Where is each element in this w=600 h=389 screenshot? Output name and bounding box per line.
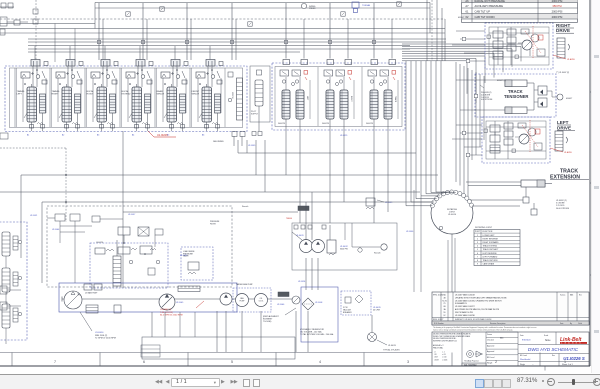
- svg-text:CRANES: CRANES: [561, 342, 583, 345]
- svg-text:6: 6: [477, 253, 478, 255]
- node: junction squares on top bus: [160, 7, 164, 11]
- wire: right column long verticals: [455, 62, 457, 182]
- svg-text:TM060: TM060: [286, 218, 292, 220]
- svg-text:U1.I0246: U1.I0246: [406, 231, 413, 233]
- svg-text:.XXXX: .XXXX: [434, 359, 440, 361]
- svg-text:HYDRAULIC RESERVOIR: HYDRAULIC RESERVOIR: [300, 328, 324, 331]
- svg-text:WINCH: WINCH: [157, 94, 165, 96]
- check valve blocks: [538, 86, 547, 95]
- svg-text:CAB TILT UP: CAB TILT UP: [475, 10, 491, 14]
- wire: vertical feed drops into valve bank: [98, 3, 100, 60]
- right drive gearbox: [557, 38, 565, 58]
- svg-text:(**) U1.I0037 (2): (**) U1.I0037 (2): [556, 72, 569, 74]
- svg-text:72 GPM @ 2200 RPM: 72 GPM @ 2200 RPM: [95, 338, 116, 340]
- sheet border right: [589, 0, 591, 366]
- left drive gearbox: [555, 131, 563, 151]
- nav: last page button: [231, 379, 238, 385]
- svg-text:ROTATING: ROTATING: [447, 208, 457, 211]
- svg-text:2: 2: [495, 360, 497, 364]
- svg-text:7: 7: [477, 256, 478, 258]
- sheet border bottom zone band: [0, 352, 432, 354]
- svg-text:LEFT: LEFT: [17, 94, 23, 96]
- nav: prev page button: [166, 379, 169, 385]
- wire: pump drive shaft: [62, 298, 296, 300]
- svg-text:U1.I0245 WAS U1.I0227: U1.I0245 WAS U1.I0227: [455, 305, 475, 308]
- svg-text:ROTATING JOINT: ROTATING JOINT: [475, 226, 493, 229]
- wire: top frame verticals: [94, 3, 96, 29]
- svg-text:U1.I0045: U1.I0045: [176, 302, 183, 304]
- cylinder C2 tensioner lower: [505, 107, 527, 114]
- svg-text:U1.I0021: U1.I0021: [30, 215, 37, 217]
- valve bank 1 enclosure (main control valve): [5, 60, 247, 137]
- main pump group box: [59, 283, 237, 312]
- pilot valves upper left of pump enclosure: [55, 214, 65, 221]
- svg-text:Drawn: Drawn: [487, 333, 492, 336]
- svg-text:.XX: .XX: [434, 354, 438, 356]
- svg-text:DRIVE: DRIVE: [557, 125, 571, 130]
- pump P4 fan pump: [236, 294, 249, 307]
- svg-text:UPDATED STROT RIGHT AND LEFT S: UPDATED STROT RIGHT AND LEFT SHEAVE FAN …: [455, 296, 507, 299]
- valve section aux 2 (cut off): [2, 268, 10, 292]
- svg-text:± .1: ± .1: [442, 352, 445, 354]
- svg-text:TRACK RETRACT: TRACK RETRACT: [483, 248, 500, 251]
- svg-text:LEFT REVERSE: LEFT REVERSE: [483, 253, 498, 255]
- left drive motor circuit: [452, 117, 550, 163]
- svg-text:OIL VOLUME - 100 GAL: OIL VOLUME - 100 GAL: [300, 331, 323, 334]
- svg-text:.XXX: .XXX: [434, 357, 439, 359]
- svg-text:B/D Level: B/D Level: [487, 357, 495, 359]
- svg-text:TOTAL SYSTEM VOLUME - 200 GAL: TOTAL SYSTEM VOLUME - 200 GAL: [300, 333, 335, 336]
- svg-text:M-540T: M-540T: [458, 17, 465, 19]
- wire: return pipes into tank: [216, 311, 218, 352]
- svg-text:U1.I0018: U1.I0018: [180, 255, 187, 257]
- small junction box lower left of tank: [141, 345, 160, 357]
- svg-text:8/5/2020: 8/5/2020: [522, 340, 531, 342]
- swing inlet blocks: [294, 225, 298, 229]
- wire: joint outputs right: [470, 199, 523, 201]
- svg-text:U1.I0229: U1.I0229: [340, 135, 347, 137]
- svg-text:T2461A4: T2461A4: [362, 4, 371, 7]
- svg-text:Revision Description: Revision Description: [490, 322, 505, 325]
- svg-text:LEFT FORWARD: LEFT FORWARD: [483, 255, 498, 258]
- svg-text:W84 DVE (2): W84 DVE (2): [95, 335, 108, 337]
- svg-text:B/D Level: B/D Level: [520, 355, 528, 357]
- tandem fan/cooler pumps dashed box: [233, 288, 271, 312]
- svg-text:U1.I0017: U1.I0017: [128, 214, 135, 216]
- svg-text:U1.A21B: U1.A21B: [564, 151, 572, 154]
- svg-text:Chkd: Chkd: [578, 323, 582, 325]
- svg-text:U1.I0234: U1.I0234: [298, 281, 305, 283]
- svg-text:A1: A1: [27, 134, 29, 137]
- breather B1: [368, 333, 377, 342]
- svg-text:40 CFM: 40 CFM: [373, 310, 380, 312]
- svg-text:Rev: Rev: [579, 295, 582, 297]
- svg-text:RIGHT: RIGHT: [52, 94, 59, 96]
- svg-text:(REPLACEMENT: (REPLACEMENT: [263, 315, 279, 318]
- svg-text:U1.I0014: U1.I0014: [448, 214, 457, 216]
- svg-text:A6: A6: [465, 0, 469, 3]
- zoom slider: [558, 382, 595, 383]
- svg-text:A2: A2: [62, 134, 64, 137]
- svg-text:HOIST: HOIST: [87, 94, 94, 96]
- svg-text:None: None: [545, 340, 551, 342]
- pilot supply valve between banks: [250, 66, 270, 131]
- wire: rotating joint drain line: [451, 234, 453, 292]
- valve bank 1 end cover: [225, 68, 243, 127]
- svg-text:4.00 STROKE: 4.00 STROKE: [481, 99, 493, 101]
- wire: bank 2 section drops to lower circuits: [285, 130, 287, 175]
- svg-text:Wes Arnold: Wes Arnold: [520, 358, 530, 361]
- pump P6 swing pump: [300, 240, 313, 253]
- wire: swing lines: [305, 202, 307, 240]
- wire: top dashed pilot bus: [0, 18, 445, 20]
- pump control enclosure (dashed): [47, 206, 232, 287]
- svg-text:M-069T: M-069T: [566, 98, 573, 100]
- valve section BOOM HOIST: [85, 60, 118, 137]
- svg-text:5: 5: [231, 360, 233, 364]
- svg-text:TRACK EXTEND: TRACK EXTEND: [483, 245, 498, 248]
- svg-text:TYPICAL 3 PLACES: TYPICAL 3 PLACES: [383, 349, 400, 352]
- svg-text:BREAKER: BREAKER: [343, 311, 352, 314]
- label RIGHT DRIVE: [556, 23, 574, 33]
- svg-text:A4: A4: [132, 134, 134, 137]
- svg-text:TRACK RETURN: TRACK RETURN: [483, 259, 498, 262]
- svg-text:Approved: Approved: [487, 344, 494, 347]
- svg-text:SHRLNE TO U1.I0016, U1.I0229 W: SHRLNE TO U1.I0016, U1.I0229 WAS U1.I023…: [455, 318, 491, 321]
- svg-text:RIGHT FORWARD: RIGHT FORWARD: [483, 241, 500, 244]
- cylinder C3 track extension: [466, 180, 570, 215]
- svg-text:U1.I0245: U1.I0245: [248, 145, 255, 147]
- svg-text:Scale: Scale: [544, 335, 548, 337]
- svg-text:SCHEMATICS: SCHEMATICS: [455, 302, 467, 305]
- svg-text:U1.A21B: U1.A21B: [567, 58, 575, 61]
- zoom in button: [593, 378, 600, 386]
- valve section REAR WINCH: [155, 60, 188, 137]
- wire: verticals joint to lower right: [413, 190, 415, 292]
- svg-text:1500 PSI: 1500 PSI: [96, 242, 103, 244]
- pump P7 swing pump 2: [312, 240, 325, 253]
- valve section TRAVEL LEFT: [15, 60, 48, 137]
- component: swing pressure sender at top: [301, 3, 306, 8]
- svg-text:A6: A6: [202, 134, 204, 137]
- rotating joint ports: [430, 204, 434, 208]
- svg-text:7: 7: [54, 360, 56, 364]
- load sense pressure valve box: [181, 247, 213, 280]
- valve section aux 1 (cut off): [2, 232, 10, 256]
- pump P2: [159, 294, 175, 310]
- wire: top right corner verticals: [426, 0, 428, 61]
- svg-text:LEFT: LEFT: [306, 96, 308, 101]
- viewer bottom toolbar: [0, 374, 600, 389]
- svg-text:U1.I0047 (*): U1.I0047 (*): [160, 309, 172, 311]
- zoom out button: [542, 380, 544, 382]
- valve section RIGHT DRIVE: [318, 60, 354, 131]
- tag TMD-43: [278, 292, 289, 297]
- svg-text:TRAVEL: TRAVEL: [52, 90, 61, 93]
- control valves above pump: [118, 227, 130, 235]
- svg-text:Date: Date: [520, 334, 524, 337]
- svg-text:The drawing is the property of: The drawing is the property of Link-Belt…: [433, 326, 537, 329]
- svg-text:1: 1: [564, 360, 566, 364]
- svg-text:WINCH: WINCH: [192, 94, 200, 96]
- svg-text:UNLESS OTHERWISE SPECIFIED DIM: UNLESS OTHERWISE SPECIFIED DIMENSIONS AR…: [433, 333, 470, 336]
- svg-text:RIGHT: RIGHT: [350, 96, 352, 102]
- svg-text:U1 MAIN PUMP: U1 MAIN PUMP: [85, 292, 98, 295]
- valve section BOOM EXTEND: [120, 60, 153, 137]
- gauge circle: [557, 94, 563, 100]
- svg-text:U1.I0046: U1.I0046: [277, 304, 284, 306]
- red annotation U1.I0226 main valve: [148, 131, 176, 137]
- revision table: [432, 292, 589, 325]
- svg-text:Third Angle Projection: Third Angle Projection: [464, 360, 479, 363]
- svg-text:DELIVERED: DELIVERED: [213, 141, 224, 143]
- wire: vertical bundle down to rotating joint: [405, 61, 407, 190]
- valve section FRONT WINCH: [190, 60, 223, 137]
- svg-text:R.B. Number: R.B. Number: [434, 322, 444, 325]
- svg-text:COOL: COOL: [259, 301, 264, 303]
- svg-text:3000 PSI: 3000 PSI: [366, 123, 373, 125]
- reservoir internal box: [301, 287, 338, 342]
- viewer scrollbar: [591, 0, 600, 373]
- wire: top horizontal return lines: [95, 2, 430, 4]
- valve section TRAVEL RIGHT: [50, 60, 83, 137]
- svg-text:CASE DRAIN: CASE DRAIN: [483, 263, 495, 266]
- left edge port stubs: [0, 286, 7, 294]
- wire: drain lines below joint: [447, 240, 449, 292]
- svg-text:PORT: PORT: [475, 231, 481, 233]
- title block: [432, 332, 589, 366]
- svg-text:A7: A7: [465, 4, 469, 8]
- svg-text:FILTER: FILTER: [210, 223, 216, 225]
- wire: top-left small lines: [0, 6, 14, 8]
- svg-text:Various: Various: [560, 295, 565, 297]
- wire: swing return lines: [305, 258, 307, 290]
- pump regulator sub-box: [90, 243, 168, 288]
- cylinder C1 tensioner upper: [505, 80, 527, 87]
- svg-text:U1.I0226: U1.I0226: [157, 133, 168, 137]
- svg-text:1: 1: [477, 235, 478, 237]
- svg-text:U1.I0008: U1.I0008: [315, 302, 322, 304]
- third angle projection symbol: [467, 351, 474, 358]
- svg-text:3000 PSI: 3000 PSI: [322, 123, 329, 125]
- label LEFT DRIVE: [557, 120, 575, 130]
- svg-text:8: 8: [477, 260, 478, 262]
- wire: vertical stubs from outlet blocks: [237, 140, 239, 153]
- svg-text:UNLESS OTHERWISE SPECIFIED.: UNLESS OTHERWISE SPECIFIED.: [433, 338, 457, 340]
- svg-text:TENSIONER: TENSIONER: [504, 94, 528, 99]
- vacuum breaker box: [341, 291, 371, 315]
- svg-text:TRAVEL: TRAVEL: [17, 90, 26, 93]
- wire: left return gallery lines: [0, 133, 8, 139]
- svg-text:2: 2: [477, 238, 478, 240]
- svg-text:SUPPLY: SUPPLY: [251, 113, 259, 115]
- pressure filter F1 (hatched): [86, 305, 98, 313]
- nav: next page button: [221, 379, 224, 385]
- view mode icons: [475, 379, 484, 388]
- svg-text:RIGHT REVERSE: RIGHT REVERSE: [483, 238, 499, 240]
- svg-text:U1.I0046 WAS U1.I0190, UPDATED: U1.I0046 WAS U1.I0190, UPDATED HYD DRIVE…: [455, 299, 502, 302]
- svg-text:RFSL 101377: RFSL 101377: [433, 319, 443, 321]
- label TRACK TENSIONER: [504, 89, 528, 99]
- nav: page box 1 / 1: [171, 378, 220, 388]
- svg-text:6: 6: [143, 360, 145, 364]
- svg-text:U1.I0013: U1.I0013: [388, 345, 396, 347]
- node: outlet blocks below bank: [232, 132, 237, 137]
- svg-text:± .0005: ± .0005: [442, 359, 447, 361]
- svg-text:.X: .X: [434, 352, 436, 354]
- pump P5 oil cooler pump: [255, 294, 268, 307]
- svg-text:By: By: [570, 323, 572, 325]
- motor M2 (Rexroth): [381, 244, 387, 250]
- svg-text:3000 PSI: 3000 PSI: [278, 123, 285, 125]
- svg-text:PUMP: PUMP: [240, 301, 246, 303]
- wire: extension feed lines: [466, 181, 521, 183]
- svg-text:AUXILIARY PRESSURE: AUXILIARY PRESSURE: [475, 4, 504, 8]
- wire: tensioner connections: [533, 83, 535, 110]
- nav: page view icons: [243, 379, 250, 387]
- svg-text:5: 5: [477, 249, 478, 251]
- tag TYP060 dark: [298, 206, 309, 211]
- svg-text:DWG HYD SCHEMATIC: DWG HYD SCHEMATIC: [528, 347, 579, 352]
- nav: first page button: [155, 379, 162, 385]
- svg-text:T-50 (4.53 CI): T-50 (4.53 CI): [160, 312, 173, 314]
- valve section aux 3 (cut off): [2, 304, 10, 328]
- valve T2461A4 at top center: [352, 2, 359, 8]
- svg-text:CAB TILT DOWN: CAB TILT DOWN: [475, 15, 495, 19]
- pump P3: [220, 293, 232, 305]
- svg-text:U1.I0016: U1.I0016: [95, 332, 104, 334]
- heat exchanger: [178, 286, 200, 292]
- svg-text:9: 9: [477, 264, 478, 266]
- valve U1.I0019 pilot check: [366, 198, 375, 206]
- valve bank (left, cut off at edge): [0, 222, 27, 340]
- gear pump symbols above shaft: [84, 284, 92, 290]
- wire: return gallery lines across mid sheet: [238, 152, 416, 154]
- right drive motor circuit: [452, 23, 553, 69]
- svg-text:7D-7D: 7D-7D: [442, 300, 448, 302]
- wire: main pressure bus lines above valve bank: [28, 38, 446, 40]
- pump P1 main piston pump: [64, 291, 82, 309]
- svg-text:Rev: Rev: [552, 355, 555, 357]
- svg-text:LEFT: LEFT: [557, 120, 569, 125]
- svg-text:U1.I0244 WAS U1.I0236: U1.I0244 WAS U1.I0236: [455, 314, 475, 317]
- svg-text:AUX PRESS 350 PSI WAS 300, 550: AUX PRESS 350 PSI WAS 300, 550 PSI WAS 3…: [455, 308, 500, 311]
- svg-text:3: 3: [477, 242, 478, 244]
- svg-text:BAS: BAS: [500, 337, 504, 340]
- svg-text:2000 PSI: 2000 PSI: [552, 15, 563, 19]
- valve section LEFT DRIVE: [278, 60, 310, 131]
- relief valve swing: [327, 240, 336, 253]
- svg-text:2000 PSI: 2000 PSI: [552, 0, 563, 3]
- filter F2 diamond: [302, 298, 314, 310]
- svg-text:U1.I0226 S: U1.I0226 S: [563, 356, 585, 361]
- svg-text:A3: A3: [97, 134, 99, 137]
- svg-text:3000 PSI: 3000 PSI: [340, 249, 348, 251]
- svg-text:U1.I0047 WAS U1.I0018: U1.I0047 WAS U1.I0018: [455, 294, 475, 297]
- svg-text:34.2 GPM @ 2200 RPM: 34.2 GPM @ 2200 RPM: [160, 315, 183, 317]
- svg-text:M-549T (2): M-549T (2): [497, 80, 506, 82]
- svg-text:LOWER LEFT: LOWER LEFT: [483, 235, 496, 237]
- svg-text:RADIAL ROT PRESSURE: RADIAL ROT PRESSURE: [475, 0, 506, 3]
- wire: lines from bundle into joint: [406, 190, 432, 206]
- svg-text:3: 3: [407, 360, 409, 364]
- swing circuit box: [292, 223, 397, 270]
- relief spring symbols in pump enclosure: [150, 249, 156, 251]
- svg-text:REAR: REAR: [157, 90, 163, 93]
- valve bank 2 enclosure (travel control valve): [272, 60, 405, 131]
- svg-text:FUNCTION: FUNCTION: [483, 231, 493, 233]
- servo piston (hatched): [113, 256, 121, 286]
- svg-text:Weight: Weight: [487, 362, 493, 365]
- valve section TRACK EXT: [362, 60, 398, 131]
- svg-text:Checked: Checked: [487, 340, 494, 342]
- wire: left feeder verticals: [54, 24, 56, 63]
- motor M1 small: [292, 296, 300, 304]
- wire: bus fan to right side circuits: [402, 43, 530, 45]
- svg-text:TANDEM GEAR PUMP: TANDEM GEAR PUMP: [236, 283, 253, 286]
- rotating joint U1.I0014: [431, 192, 473, 234]
- svg-text:EXTEND: EXTEND: [122, 94, 131, 96]
- svg-text:RFSL 101282: RFSL 101282: [433, 295, 443, 297]
- svg-text:DRIVE: DRIVE: [556, 28, 570, 33]
- svg-text:4: 4: [477, 246, 478, 248]
- svg-text:TRACK: TRACK: [394, 96, 397, 103]
- svg-text:U1.I0044: U1.I0044: [52, 229, 59, 231]
- pressure settings table: [462, 0, 578, 22]
- zoom percent: [517, 378, 537, 384]
- svg-text:PRESS: PRESS: [309, 8, 316, 10]
- svg-text:54.00 STROKE: 54.00 STROKE: [556, 208, 570, 210]
- svg-text:TS-5036): TS-5036): [263, 321, 272, 323]
- svg-text:U1.I0019: U1.I0019: [385, 202, 392, 204]
- svg-text:600 PSI: 600 PSI: [231, 92, 233, 99]
- track tensioner circuit: [456, 74, 573, 117]
- wire: stub drops to each bank1 section port: [34, 46, 36, 60]
- svg-text:Rexroth: Rexroth: [242, 205, 248, 208]
- svg-text:330 PSI WAS 150 PSI: 330 PSI WAS 150 PSI: [455, 311, 473, 314]
- hydraulic reservoir tank: [142, 337, 295, 359]
- svg-text:± .03: ± .03: [442, 354, 446, 356]
- svg-text:Rexroth: Rexroth: [374, 252, 381, 255]
- svg-text:4: 4: [319, 360, 321, 364]
- svg-text:2000 PSI: 2000 PSI: [552, 10, 563, 14]
- svg-text:± .010: ± .010: [442, 357, 447, 359]
- svg-text:ANGULAR ± 1°: ANGULAR ± 1°: [433, 344, 444, 347]
- label TRACK EXTENSION: [550, 169, 589, 181]
- svg-text:Approved: Approved: [487, 350, 494, 353]
- svg-text:350 PSI: 350 PSI: [552, 4, 562, 8]
